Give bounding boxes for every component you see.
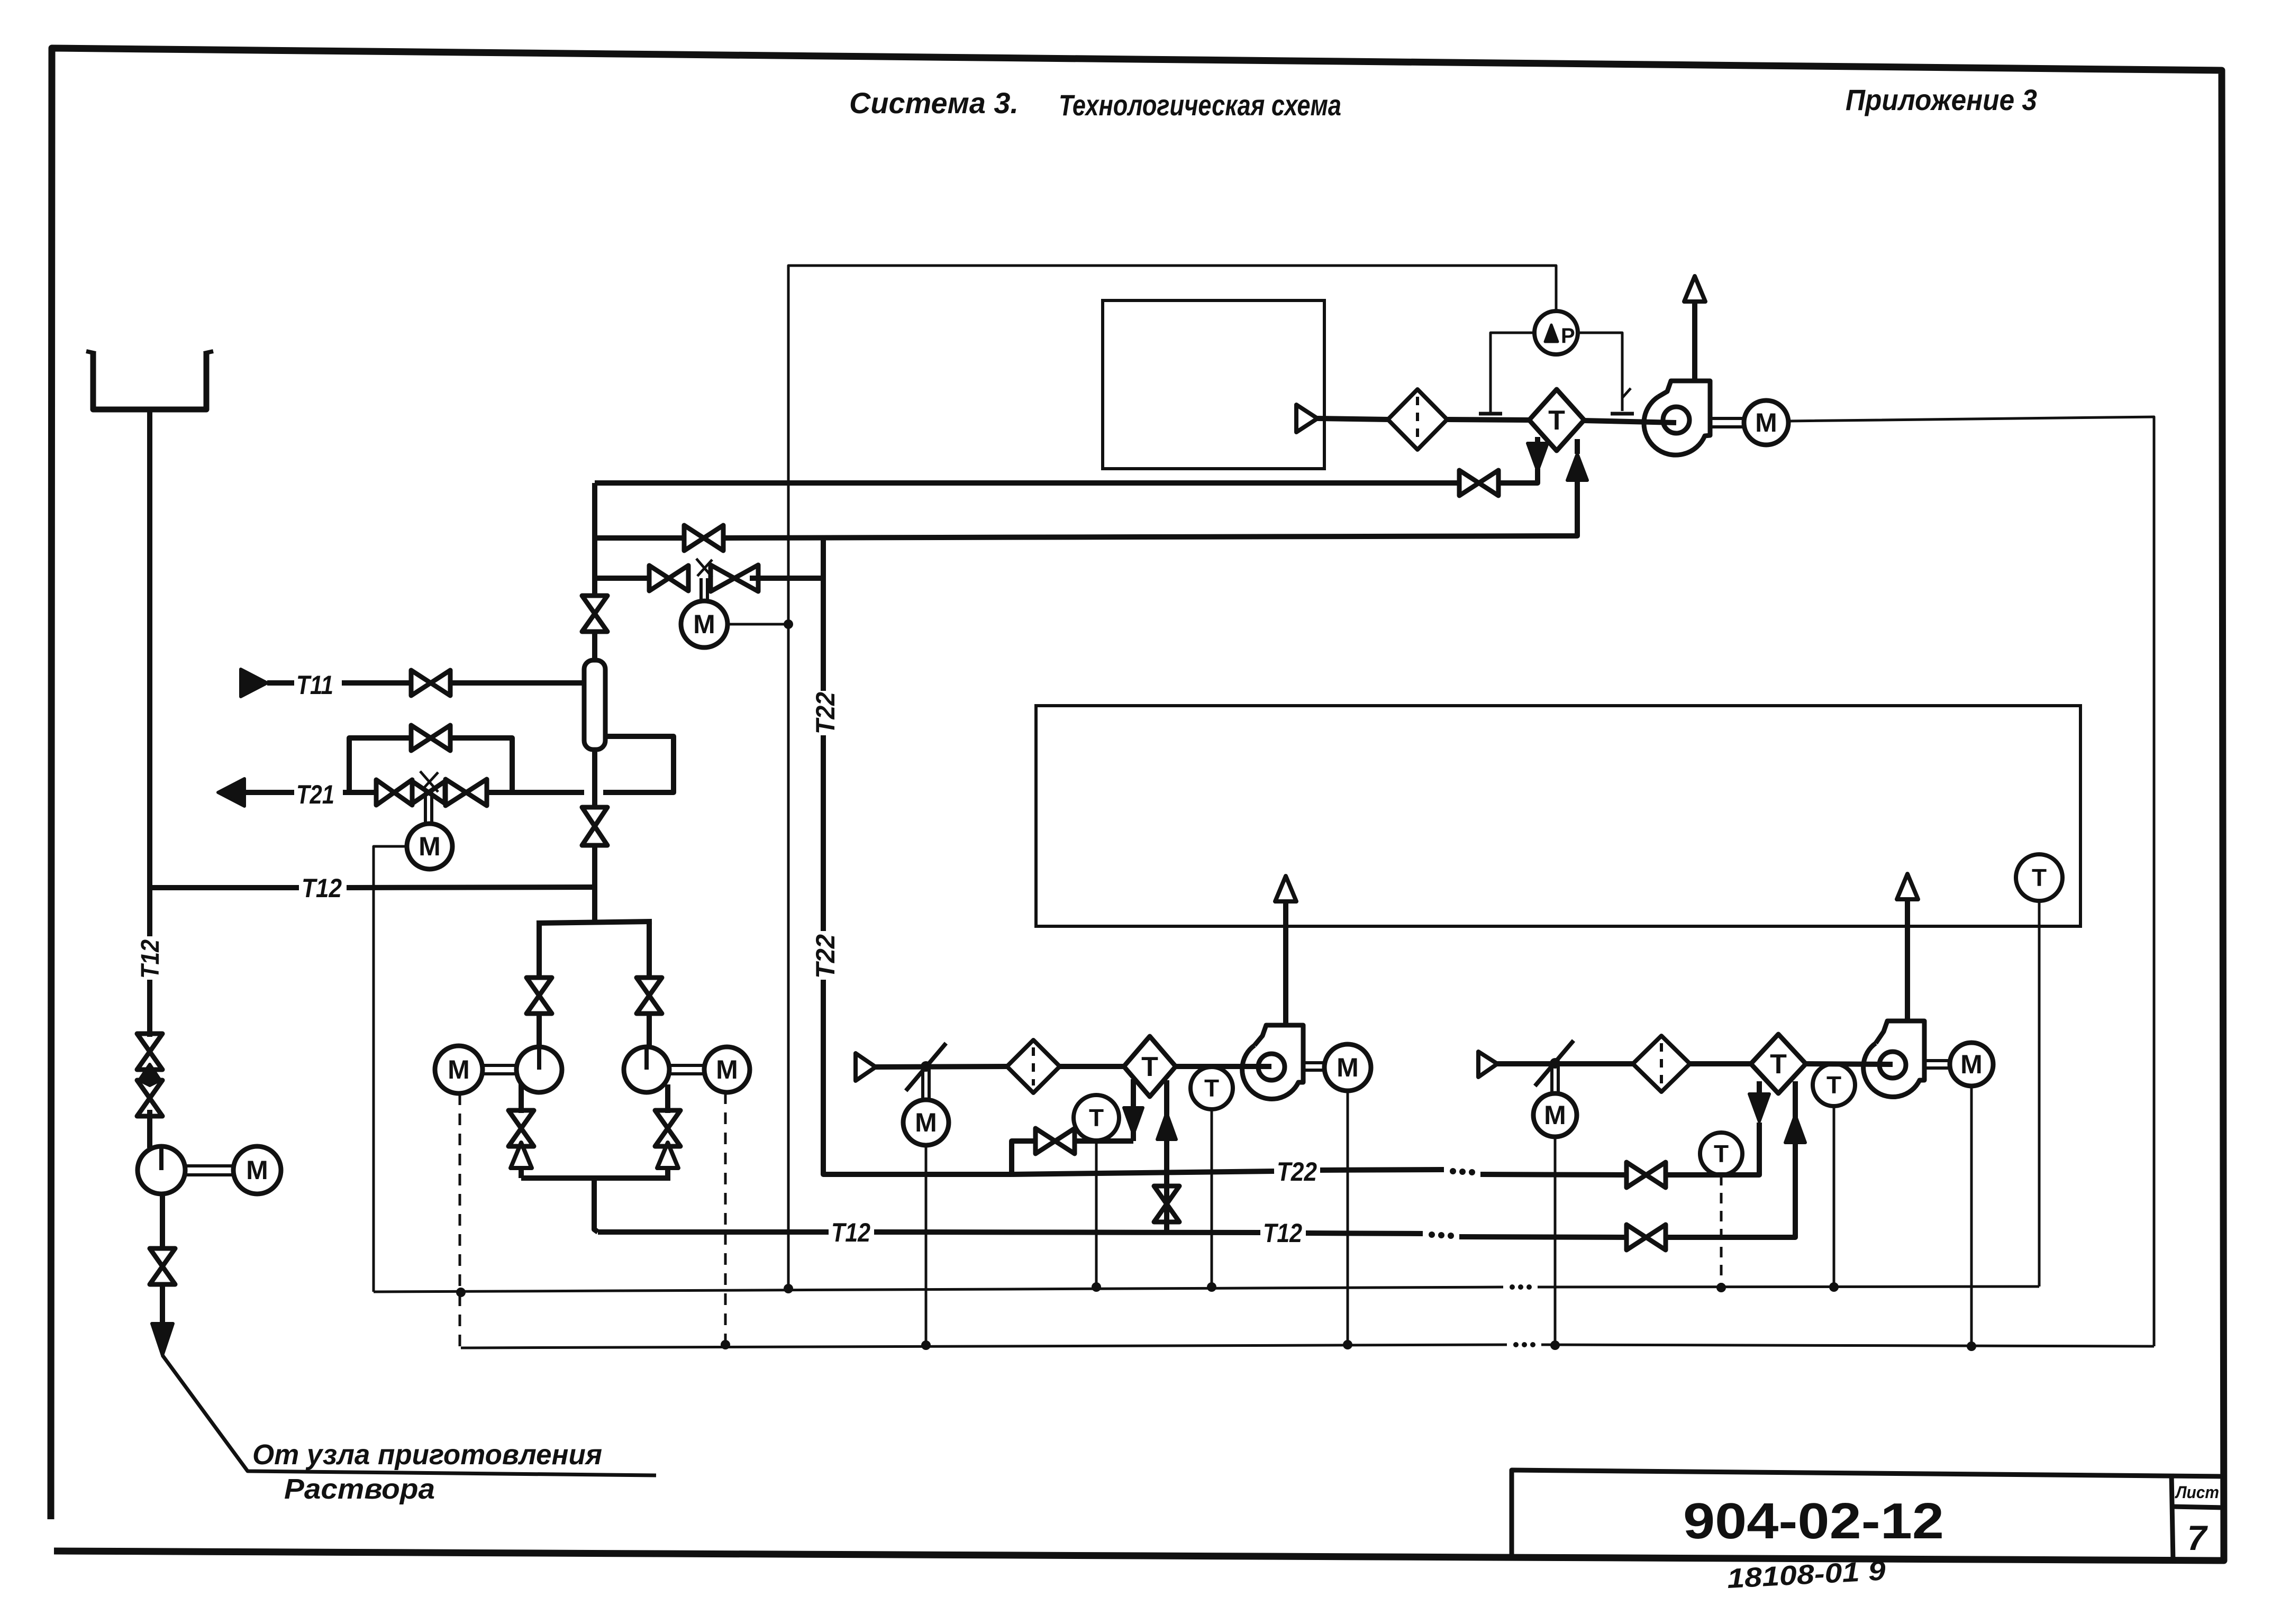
air arrow AHU1: [1275, 876, 1296, 901]
heater T AHU1: [1124, 1036, 1176, 1097]
valve T22: [1626, 1162, 1666, 1188]
shaft: [1303, 1061, 1324, 1064]
pipe pump2 suction: [647, 922, 652, 978]
motor M damper AHU2: [1533, 1093, 1577, 1137]
svg-text:Приложение 3: Приложение 3: [1846, 83, 2037, 116]
damper stem: [1550, 1063, 1553, 1093]
flow arrow up supply AHU1: [1157, 1113, 1176, 1139]
motor M line C valve: [681, 601, 728, 647]
damper stem: [921, 1066, 924, 1100]
svg-text:Р: Р: [1561, 324, 1575, 348]
pipe riser above exchanger: [592, 631, 597, 660]
signal line T duct AHU2: [1833, 1106, 1835, 1287]
pipe: [450, 680, 584, 686]
air arrow up: [1684, 276, 1705, 302]
motor M pump P2: [435, 1046, 483, 1093]
pipe riser below exchanger: [592, 750, 597, 807]
svg-text:Раствора: Раствора: [284, 1473, 435, 1505]
valve line C left: [649, 565, 688, 591]
air duct: [1176, 1064, 1271, 1069]
sensor T room: [2016, 854, 2062, 901]
pipe: [1535, 437, 1540, 443]
svg-text:Т12: Т12: [302, 873, 342, 903]
junction: [1967, 1342, 1976, 1351]
shaft: [669, 1064, 704, 1067]
air duct: [1448, 419, 1530, 420]
flow arrow open pump1: [511, 1143, 532, 1168]
svg-text:Т11: Т11: [296, 670, 333, 700]
signal line M damper AHU1: [925, 1145, 928, 1345]
svg-text:904-02-12: 904-02-12: [1683, 1493, 1944, 1549]
damper AHU1: [906, 1043, 946, 1091]
flow arrow up line B: [1567, 454, 1587, 480]
pipe riser: [592, 483, 597, 597]
svg-text:Т: Т: [1826, 1071, 1841, 1099]
room box upper: [1103, 300, 1324, 469]
pipe T12 bottom: [1306, 1233, 1423, 1234]
motor M fan AHU1: [1324, 1044, 1371, 1091]
pipe: [665, 1168, 670, 1178]
motor M control valve T21: [407, 824, 452, 869]
pipe T12 bottom: [598, 1229, 829, 1235]
sensor T return AHU2: [1700, 1133, 1742, 1175]
valve line C right: [711, 565, 758, 591]
svg-text:М: М: [448, 1055, 470, 1084]
valve drain upper: [137, 1034, 162, 1070]
stem: [699, 578, 703, 601]
pipe tank drain: [147, 409, 152, 936]
shaft: [483, 1064, 516, 1067]
signal bus 2: [1541, 1345, 2154, 1346]
valve T21 right: [446, 779, 487, 806]
flow arrow T11: [241, 669, 267, 697]
pipe T22 bottom: [1012, 1171, 1274, 1174]
svg-text:Т: Т: [1714, 1140, 1729, 1167]
svg-text:Т: Т: [1141, 1052, 1158, 1082]
room box lower: [1036, 706, 2080, 926]
valve pump2 suction: [637, 978, 662, 1014]
pipe: [1757, 1081, 1762, 1094]
pipe T12 to heater AHU2: [1666, 1081, 1795, 1237]
sensor T duct AHU2: [1813, 1064, 1855, 1106]
pipe: [1075, 1138, 1133, 1144]
air duct: [1806, 1064, 1893, 1064]
svg-text:Т: Т: [2032, 864, 2047, 891]
signal line dP loop: [788, 266, 1556, 624]
tank: [93, 352, 206, 409]
signal line M fan top: [1788, 417, 2154, 1346]
pump P3: [624, 1047, 669, 1092]
air arrow AHU2: [1897, 874, 1918, 899]
junction: [456, 1288, 466, 1297]
signal line M pump P2: [459, 1093, 461, 1347]
svg-text:М: М: [419, 832, 441, 861]
flow arrow open pump2: [657, 1143, 678, 1168]
svg-text:М: М: [1960, 1050, 1983, 1079]
fan AHU1: [1242, 1025, 1303, 1099]
pipe T22 riser: [821, 538, 826, 691]
pipe: [147, 1110, 152, 1148]
pipe header bottom: [521, 1175, 670, 1181]
starburst: [696, 559, 712, 577]
heat exchanger E1: [584, 660, 605, 750]
valve riser: [582, 596, 607, 632]
air duct: [1059, 1064, 1124, 1069]
pipe pump1 suction: [537, 923, 542, 978]
pipe T22 bottom: [1320, 1170, 1444, 1170]
junction: [1092, 1282, 1101, 1292]
intake funnel: [1296, 405, 1317, 432]
pipe: [342, 680, 411, 686]
signal line M pump P3: [724, 1092, 727, 1345]
valve T11: [411, 670, 450, 696]
bus break dots: [1513, 1342, 1519, 1347]
svg-text:Т22: Т22: [811, 934, 840, 979]
supply duct AHU2: [1905, 900, 1910, 1021]
pipe T12 bottom: [874, 1232, 1260, 1233]
svg-text:М: М: [1755, 408, 1777, 437]
flow arrow up supply AHU2: [1785, 1115, 1805, 1143]
signal line T duct AHU1: [1211, 1109, 1213, 1287]
valve pump1 suction: [526, 978, 552, 1014]
pipe line A: [595, 480, 1459, 486]
svg-text:Т: Т: [1770, 1049, 1787, 1080]
junction: [1716, 1283, 1726, 1292]
junction: [1207, 1282, 1216, 1292]
leader line: [162, 1355, 656, 1475]
signal line M to bus: [374, 846, 407, 1292]
valve bypass: [411, 725, 450, 751]
junction: [1829, 1282, 1839, 1292]
pipe discharge: [160, 1194, 165, 1248]
svg-text:М: М: [246, 1155, 268, 1185]
svg-text:Т: Т: [1548, 405, 1565, 436]
pipe T22 to heater: [1666, 1123, 1759, 1175]
title block box: [1512, 1470, 2223, 1559]
air duct: [1690, 1061, 1750, 1066]
junction: [1343, 1340, 1352, 1349]
svg-text:Т22: Т22: [1277, 1157, 1317, 1187]
pipe: [647, 1012, 652, 1047]
junction: [921, 1340, 931, 1350]
intake funnel AHU1: [856, 1053, 876, 1081]
junction: [784, 1284, 793, 1293]
pipe: [343, 790, 377, 795]
fan discharge duct: [1692, 300, 1697, 381]
pipe T22 riser: [823, 980, 1012, 1174]
signal line T room to bus1: [2038, 901, 2041, 1287]
signal line T return AHU1: [1095, 1141, 1098, 1287]
flow arrow down return AHU2: [1749, 1094, 1769, 1121]
svg-text:Т: Т: [1089, 1104, 1104, 1132]
pipe riser to header: [592, 845, 597, 923]
signal bus 1: [1538, 1287, 2039, 1287]
pipe pump2 discharge: [665, 1084, 670, 1113]
instrument dP: [1534, 311, 1578, 354]
dP tap right: [1578, 333, 1622, 411]
valve below exchanger: [582, 807, 607, 845]
supply duct AHU1: [1283, 902, 1288, 1025]
motor M pump P1: [233, 1146, 281, 1194]
sensor T duct AHU1: [1191, 1067, 1233, 1109]
pipe T12 bottom: [1459, 1237, 1628, 1237]
filter F2: [1007, 1040, 1060, 1093]
flow arrow down return AHU1: [1124, 1108, 1143, 1134]
valve supply AHU1: [1154, 1186, 1179, 1222]
svg-text:М: М: [1544, 1100, 1566, 1130]
valve T21 left: [376, 780, 412, 805]
svg-text:Т22: Т22: [811, 692, 840, 734]
fan top: [1644, 381, 1710, 455]
air duct: [1317, 418, 1389, 419]
svg-text:От узла приготовления: От узла приготовления: [252, 1439, 602, 1471]
pipe line B: [595, 535, 684, 541]
valve T21 control: [412, 781, 445, 804]
pipe: [160, 1284, 165, 1330]
pipe: [267, 680, 294, 686]
fan AHU2: [1864, 1021, 1924, 1097]
signal line T return AHU2: [1720, 1175, 1723, 1288]
svg-text:Т12: Т12: [1263, 1218, 1302, 1248]
flow arrow down: [152, 1324, 173, 1355]
signal line M fan AHU2: [1970, 1086, 1973, 1346]
filter F3: [1633, 1036, 1690, 1092]
svg-text:М: М: [915, 1108, 937, 1137]
pipe return AHU1: [1131, 1079, 1136, 1141]
motor M pump P3: [704, 1047, 750, 1092]
svg-text:Технологическая схема: Технологическая схема: [1059, 88, 1341, 122]
signal bus 1: [374, 1287, 1503, 1292]
svg-text:Т12: Т12: [831, 1218, 870, 1247]
svg-text:М: М: [693, 609, 715, 639]
bus break dots: [1510, 1284, 1515, 1290]
pipe T12 mid: [347, 887, 595, 888]
valve line B: [684, 525, 723, 551]
filter F1: [1388, 389, 1447, 450]
pipe line C: [595, 576, 649, 581]
pipe stem control valve: [430, 792, 433, 823]
svg-text:Т21: Т21: [296, 780, 334, 809]
junction: [1550, 1340, 1560, 1350]
starburst: [420, 771, 438, 792]
damper AHU2: [1535, 1041, 1574, 1086]
motor M fan AHU2: [1950, 1043, 1993, 1086]
pipe pump1 discharge: [519, 1084, 524, 1113]
pipe: [750, 576, 823, 581]
pipe T22 bottom: [1480, 1174, 1628, 1175]
valve discharge: [150, 1248, 175, 1284]
pipe: [485, 790, 584, 795]
check valve drain: [139, 1064, 160, 1085]
junction: [784, 619, 793, 629]
pipe T12 mid: [150, 885, 299, 890]
pipe T12 drop from header: [594, 1178, 598, 1232]
svg-text:Т12: Т12: [137, 939, 165, 979]
pipe: [537, 1012, 542, 1047]
valve pump1 discharge: [508, 1110, 534, 1146]
signal line to bus1: [787, 624, 790, 1289]
svg-text:Т: Т: [1204, 1074, 1219, 1102]
pipe T22 riser: [821, 735, 826, 931]
valve T12: [1626, 1225, 1666, 1250]
svg-text:М: М: [1337, 1053, 1359, 1082]
intake funnel AHU2: [1478, 1052, 1497, 1077]
valve return AHU1: [1035, 1128, 1075, 1154]
sensor T return AHU1: [1074, 1095, 1119, 1141]
line break dots: [1450, 1168, 1456, 1174]
air duct: [1584, 421, 1676, 423]
flow arrow T21: [218, 779, 244, 806]
signal line M fan AHU1: [1347, 1091, 1349, 1345]
signal line M valve: [728, 623, 788, 626]
pipe supply AHU1: [1164, 1080, 1169, 1230]
shaft: [1924, 1059, 1950, 1062]
pipe: [723, 478, 1577, 538]
motor M damper AHU1: [903, 1100, 949, 1145]
signal line M damper AHU2: [1554, 1137, 1557, 1345]
pipe header top: [537, 922, 652, 923]
shaft: [185, 1164, 233, 1167]
valve line A: [1459, 470, 1498, 496]
line break dots: [1429, 1231, 1435, 1238]
pump P2: [516, 1047, 562, 1092]
bypass pipe: [349, 738, 411, 792]
junction: [721, 1340, 730, 1349]
heater T top: [1529, 389, 1584, 451]
pipe: [1012, 1141, 1035, 1174]
pipe: [244, 790, 294, 795]
heater T AHU2: [1751, 1034, 1806, 1093]
air duct: [1497, 1061, 1633, 1066]
signal bus 2: [461, 1345, 1507, 1348]
air duct: [876, 1066, 1007, 1067]
pipe: [519, 1168, 524, 1178]
valve pump2 discharge: [655, 1110, 680, 1146]
flow arrow down into line A: [1528, 443, 1548, 471]
svg-text:Система 3.: Система 3.: [849, 86, 1019, 120]
valve drain lower: [137, 1080, 162, 1116]
pipe exchanger outlet loop: [603, 736, 674, 792]
pump P1: [138, 1146, 185, 1194]
pipe: [1498, 469, 1538, 483]
svg-text:М: М: [716, 1055, 738, 1084]
shaft: [1710, 417, 1744, 420]
pipe: [1575, 439, 1580, 454]
pipe: [147, 980, 152, 1037]
svg-text:Лист: Лист: [2175, 1483, 2219, 1502]
dP tap left: [1491, 333, 1534, 412]
svg-text:7: 7: [2187, 1518, 2209, 1557]
motor M fan top: [1744, 400, 1788, 445]
